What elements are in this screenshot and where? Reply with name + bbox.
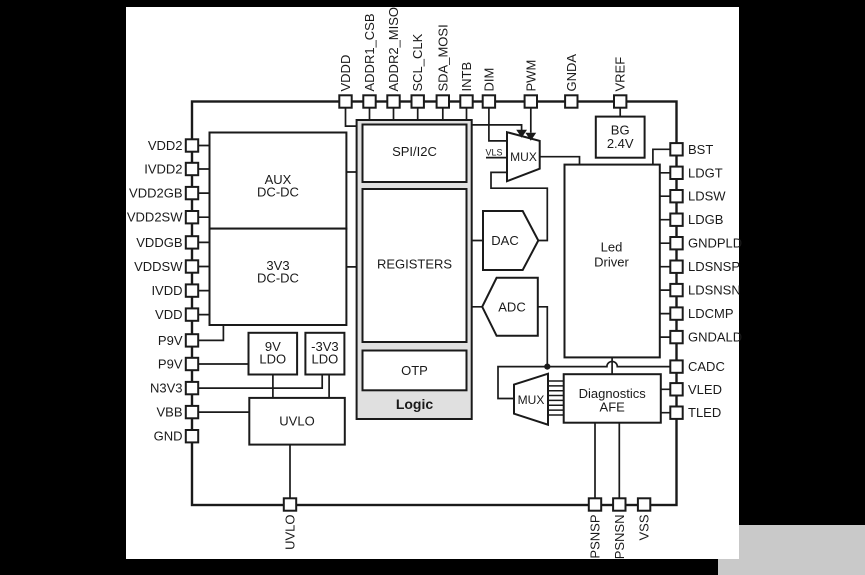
svg-text:IVDD: IVDD xyxy=(151,283,182,298)
svg-text:LDSNSP: LDSNSP xyxy=(688,259,740,274)
svg-text:OTP: OTP xyxy=(401,363,428,378)
svg-text:PSNSP: PSNSP xyxy=(588,515,603,559)
svg-text:INTB: INTB xyxy=(459,62,474,92)
svg-text:VLS: VLS xyxy=(485,148,502,158)
svg-text:LDSNSN: LDSNSN xyxy=(688,283,741,298)
svg-text:SCL_CLK: SCL_CLK xyxy=(410,33,425,91)
svg-text:MUX: MUX xyxy=(518,393,545,407)
svg-text:ADDR2_MISO: ADDR2_MISO xyxy=(386,7,401,92)
svg-text:VDDSW: VDDSW xyxy=(134,259,183,274)
svg-text:ADDR1_CSB: ADDR1_CSB xyxy=(362,13,377,91)
svg-text:SPI/I2C: SPI/I2C xyxy=(392,144,437,159)
svg-text:N3V3: N3V3 xyxy=(150,381,183,396)
svg-text:VDDD: VDDD xyxy=(338,55,353,92)
svg-text:PWM: PWM xyxy=(523,60,538,92)
svg-text:LDSW: LDSW xyxy=(688,189,726,204)
svg-text:P9V: P9V xyxy=(158,333,183,348)
svg-text:DC-DC: DC-DC xyxy=(257,271,299,286)
svg-text:GND: GND xyxy=(154,429,183,444)
svg-text:AFE: AFE xyxy=(600,400,626,415)
svg-text:MUX: MUX xyxy=(510,150,537,164)
svg-text:DAC: DAC xyxy=(491,233,518,248)
svg-text:UVLO: UVLO xyxy=(283,515,298,550)
svg-text:IVDD2: IVDD2 xyxy=(144,162,182,177)
svg-text:BST: BST xyxy=(688,142,713,157)
svg-text:P9V: P9V xyxy=(158,357,183,372)
svg-text:VDDGB: VDDGB xyxy=(136,235,182,250)
svg-text:ADC: ADC xyxy=(498,300,525,315)
svg-text:Driver: Driver xyxy=(594,255,629,270)
svg-text:GNDA: GNDA xyxy=(564,54,579,92)
svg-text:Logic: Logic xyxy=(396,396,434,412)
svg-text:VBB: VBB xyxy=(156,405,182,420)
svg-text:REGISTERS: REGISTERS xyxy=(377,257,452,272)
svg-text:VREF: VREF xyxy=(613,57,628,92)
svg-text:VDD2: VDD2 xyxy=(148,138,183,153)
svg-text:VLED: VLED xyxy=(688,382,722,397)
svg-text:LDGB: LDGB xyxy=(688,212,723,227)
svg-text:VDD2SW: VDD2SW xyxy=(127,210,183,225)
svg-text:DIM: DIM xyxy=(481,68,496,92)
svg-text:UVLO: UVLO xyxy=(279,414,314,429)
svg-text:LDO: LDO xyxy=(312,352,339,367)
svg-text:Led: Led xyxy=(601,240,623,255)
svg-text:SDA_MOSI: SDA_MOSI xyxy=(435,24,450,91)
svg-text:GNDPLD: GNDPLD xyxy=(688,236,742,251)
svg-text:LDGT: LDGT xyxy=(688,165,723,180)
svg-text:2.4V: 2.4V xyxy=(607,136,634,151)
svg-text:CADC: CADC xyxy=(688,359,725,374)
svg-text:GNDALD: GNDALD xyxy=(688,330,742,345)
svg-text:VDD2GB: VDD2GB xyxy=(129,186,182,201)
svg-text:LDCMP: LDCMP xyxy=(688,306,734,321)
svg-text:VDD: VDD xyxy=(155,307,182,322)
svg-text:TLED: TLED xyxy=(688,405,721,420)
svg-text:DC-DC: DC-DC xyxy=(257,185,299,200)
svg-text:LDO: LDO xyxy=(259,352,286,367)
svg-text:VSS: VSS xyxy=(637,514,652,540)
svg-text:PSNSN: PSNSN xyxy=(612,515,627,560)
